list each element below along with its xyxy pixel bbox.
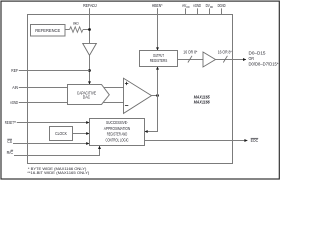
svg-text:CONTROL LOGIC: CONTROL LOGIC — [106, 138, 129, 143]
svg-text:SUCCESSIVE-: SUCCESSIVE- — [106, 120, 128, 125]
svg-text:OR: OR — [249, 56, 255, 61]
clock block — [50, 127, 73, 141]
reference block U-REF — [31, 25, 66, 37]
wire comparator output — [152, 95, 158, 97]
wire down and left into SAR — [145, 96, 158, 134]
bus slash 2 — [223, 56, 227, 63]
wire R/C up into SAR bottom — [14, 146, 101, 156]
bus slash 1 — [188, 56, 192, 63]
node comparator output — [156, 94, 159, 97]
svg-text:16 OR 8*: 16 OR 8* — [218, 49, 232, 54]
pin R/C (left, read/convert) — [7, 150, 14, 155]
wire REFADJ vertical — [89, 8, 91, 43]
pin AIN (left) — [12, 85, 18, 90]
svg-text:**16-BIT WIDE (MAX1165 ONLY): **16-BIT WIDE (MAX1165 ONLY) — [27, 170, 90, 175]
pin REFADJ (top) — [83, 3, 97, 8]
wire RESET to SAR — [17, 121, 90, 124]
svg-text:DGND: DGND — [218, 3, 226, 8]
wire output registers to buffer — [178, 59, 204, 61]
svg-text:D0/D8–D7/D15*: D0/D8–D7/D15* — [249, 61, 279, 66]
svg-text:REGISTER AND: REGISTER AND — [107, 132, 128, 137]
pin DVDD — [206, 3, 214, 14]
wire AIN to comparator — [19, 87, 124, 89]
node: reference / REFADJ junction — [88, 28, 91, 31]
wire buffer output down to DAC — [88, 55, 91, 84]
svg-text:CLOCK: CLOCK — [55, 131, 67, 136]
svg-text:AIN: AIN — [12, 85, 18, 90]
svg-text:HBEN*: HBEN* — [152, 3, 163, 8]
wire HBEN to output registers — [156, 8, 159, 50]
pin HBEN* (top) — [152, 3, 163, 8]
svg-text:R/C: R/C — [7, 150, 14, 155]
svg-text:APPROXIMATION: APPROXIMATION — [104, 126, 131, 131]
svg-text:CS: CS — [7, 139, 12, 144]
svg-text:AGND: AGND — [10, 100, 18, 105]
pin EOC (right, active low) — [251, 138, 259, 143]
pin AGND (left) — [10, 100, 18, 105]
pin DGND — [218, 3, 226, 14]
svg-text:REF: REF — [11, 68, 18, 73]
svg-text:RESET**: RESET** — [5, 120, 16, 125]
output registers block — [140, 51, 178, 67]
wire EOC — [145, 139, 248, 142]
pin RESET** (left) — [5, 120, 16, 125]
wire AGND to comparator — [19, 102, 124, 104]
svg-text:DD: DD — [210, 5, 214, 9]
svg-text:DAC: DAC — [83, 95, 91, 100]
svg-text:DD: DD — [186, 5, 190, 9]
capacitive DAC block — [68, 85, 110, 105]
pin D0-D15 labels (right) — [249, 50, 279, 66]
wire up to output registers — [156, 67, 159, 96]
IC body outline — [28, 15, 233, 164]
svg-text:16 OR 8*: 16 OR 8* — [183, 49, 197, 54]
SAR control logic block — [90, 119, 145, 146]
outer frame — [1, 1, 279, 179]
wire clock to SAR — [73, 132, 90, 135]
svg-text:EOC: EOC — [251, 138, 259, 143]
wire buffer to data pins — [216, 58, 247, 61]
svg-text:REFADJ: REFADJ — [83, 3, 97, 8]
svg-text:8kΩ: 8kΩ — [73, 20, 79, 25]
pin AVDD — [182, 3, 190, 14]
svg-text:AGND: AGND — [193, 3, 201, 8]
pin REF (left) — [11, 68, 18, 73]
comparator U-COMP — [124, 78, 152, 113]
op-amp output buffer — [203, 52, 216, 67]
wire REF — [19, 70, 90, 72]
pin AGND (top) — [193, 3, 201, 14]
pin CS (left, active low) — [7, 139, 12, 144]
svg-text:MAX1166: MAX1166 — [194, 99, 210, 104]
op-amp reference buffer — [83, 43, 97, 55]
svg-text:D0–D15: D0–D15 — [249, 50, 267, 55]
wire CS to SAR — [13, 142, 89, 145]
svg-text:REGISTERS: REGISTERS — [150, 58, 168, 63]
node: REF junction — [88, 69, 91, 72]
resistor 8k ohm — [65, 20, 90, 32]
svg-text:REFERENCE: REFERENCE — [35, 28, 60, 33]
